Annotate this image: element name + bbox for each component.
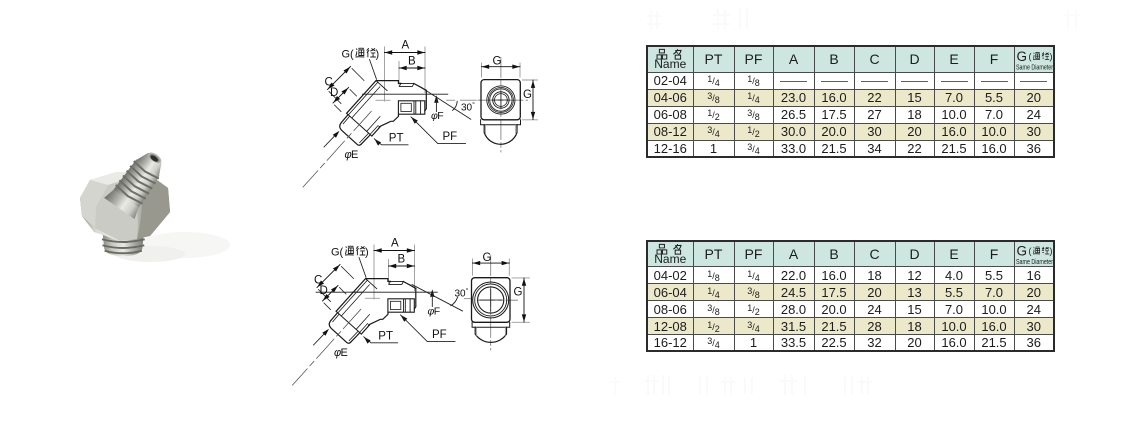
horizontal feature line extension (316, 291, 363, 293)
soft shadow (140, 232, 230, 258)
45deg flare stem (104, 144, 172, 219)
30 deg arc (453, 101, 458, 110)
hex square outline (472, 278, 511, 323)
phi F (434, 95, 438, 103)
lower PT thread (101, 216, 146, 256)
thread circles (473, 282, 509, 318)
dome (484, 125, 517, 145)
svg-text:G: G (523, 89, 532, 101)
G right dim (512, 278, 530, 322)
G top dim (473, 259, 510, 275)
30 deg cone line (412, 285, 463, 312)
G right dim (523, 80, 538, 120)
30 deg cone line (421, 87, 471, 119)
thread circles (487, 86, 515, 114)
table 1 (646, 45, 1055, 158)
horizontal centerline (478, 299, 518, 301)
svg-text:F: F (434, 305, 440, 317)
30 deg arc (451, 297, 458, 306)
svg-text:30°: 30° (461, 101, 475, 114)
svg-text:G: G (493, 56, 502, 68)
hex body (80, 172, 170, 241)
washer band (481, 120, 521, 125)
vertical centerline (500, 58, 502, 153)
table 1: pin ming (657, 49, 667, 59)
svg-text:G: G (483, 252, 492, 264)
phi F (430, 289, 434, 297)
30 deg centerline dashes (447, 99, 477, 101)
hex square outline (481, 80, 520, 120)
dome (475, 327, 506, 342)
30 deg centerline dashes (465, 298, 472, 300)
horizontal centerline (478, 99, 528, 101)
bore cross (480, 289, 502, 311)
bore cross (492, 91, 509, 108)
table 2: pin ming (657, 244, 667, 254)
vertical centerline (490, 256, 492, 351)
svg-text:30°: 30° (455, 287, 469, 300)
svg-text:G: G (514, 287, 523, 299)
washer band (472, 322, 510, 327)
svg-text:F: F (437, 110, 443, 122)
table 2 (646, 240, 1055, 352)
G top dim (482, 63, 521, 77)
